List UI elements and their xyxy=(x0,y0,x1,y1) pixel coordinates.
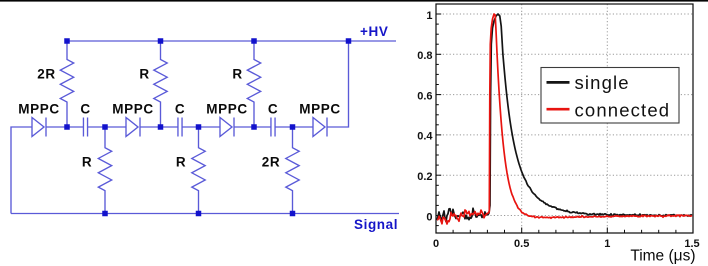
wire: +HV top bus xyxy=(67,40,396,42)
svg-text:Signal: Signal xyxy=(354,217,398,232)
svg-text:R: R xyxy=(82,155,92,170)
wire: right drop from +HV bus to MPPC4 cathode xyxy=(327,41,349,127)
node J3 xyxy=(158,124,164,130)
svg-text:0.8: 0.8 xyxy=(417,50,432,62)
svg-text:0.4: 0.4 xyxy=(417,131,433,143)
svg-text:1: 1 xyxy=(426,10,432,22)
svg-text:MPPC: MPPC xyxy=(112,102,153,117)
svg-text:MPPC: MPPC xyxy=(18,102,59,117)
svg-text:2R: 2R xyxy=(37,67,55,82)
resistor R3 value R (top right) xyxy=(247,41,260,127)
capacitor C1 xyxy=(82,118,84,137)
node: top bus junction at right drop xyxy=(346,38,352,44)
chart gridlines xyxy=(436,13,693,15)
svg-text:0.2: 0.2 xyxy=(417,171,432,183)
resistor R4 value R (bottom left) xyxy=(98,127,111,214)
diode MPPC3 xyxy=(220,118,232,137)
wire: C1 to node J2 xyxy=(88,126,105,128)
svg-text:R: R xyxy=(139,67,149,82)
resistor R6 value 2R (bottom right) xyxy=(286,127,299,214)
chart x-axis ticks xyxy=(435,228,437,234)
diode MPPC4 xyxy=(313,118,325,137)
node: top bus junction above R2 xyxy=(158,38,164,44)
node J6 xyxy=(290,124,296,130)
chart y-axis ticks xyxy=(436,215,441,217)
svg-text:0.5: 0.5 xyxy=(514,238,529,250)
svg-text:C: C xyxy=(175,102,185,117)
top border rule xyxy=(0,0,708,2)
wire: node J5 to C3 xyxy=(254,126,271,128)
wire: C3 to node J6 xyxy=(275,126,292,128)
wire: C2 to node J4 xyxy=(182,126,198,128)
legend sample line: single xyxy=(547,81,570,84)
wire: MPPC2 cathode to node J3 xyxy=(140,126,161,128)
svg-text:+HV: +HV xyxy=(360,24,388,39)
wire: node J2 to MPPC2 anode xyxy=(105,126,126,128)
wire: node J4 to MPPC3 anode xyxy=(199,126,221,128)
legend box xyxy=(541,68,679,124)
node J4 xyxy=(196,124,202,130)
node J1 xyxy=(64,124,70,130)
node: top bus junction above R1 xyxy=(64,38,70,44)
wire: node J6 to MPPC4 anode xyxy=(293,126,314,128)
svg-text:0: 0 xyxy=(433,238,439,250)
svg-text:C: C xyxy=(80,102,90,117)
node J2 xyxy=(102,124,108,130)
node: top bus junction above R3 xyxy=(251,38,257,44)
node: bottom bus junction under R4 xyxy=(102,211,108,217)
svg-text:0.6: 0.6 xyxy=(417,90,432,102)
node: bottom bus junction under R5 xyxy=(196,211,202,217)
wire: left rail from MPPC1 anode down to signal bus xyxy=(11,127,32,214)
node J5 xyxy=(251,124,257,130)
svg-text:R: R xyxy=(176,155,186,170)
svg-text:R: R xyxy=(232,67,242,82)
curve: connected (red) xyxy=(437,14,692,224)
svg-text:connected: connected xyxy=(575,100,671,121)
diode MPPC2 xyxy=(126,118,138,137)
capacitor C3 xyxy=(270,118,272,137)
node: bottom bus junction under R6 xyxy=(290,211,296,217)
resistor R1 value 2R (top left) xyxy=(60,41,73,127)
svg-text:C: C xyxy=(268,102,278,117)
wire: node J3 to C2 xyxy=(161,126,178,128)
wire: node J1 to C1 xyxy=(67,126,83,128)
capacitor C2 xyxy=(177,118,179,137)
resistor R5 value R (bottom middle) xyxy=(192,127,205,214)
svg-text:MPPC: MPPC xyxy=(206,102,247,117)
legend sample line: connected xyxy=(547,108,570,111)
svg-text:1: 1 xyxy=(604,238,610,250)
svg-text:single: single xyxy=(575,72,630,93)
diode MPPC1 xyxy=(32,118,44,137)
svg-text:MPPC: MPPC xyxy=(299,102,340,117)
chart frame xyxy=(436,4,693,233)
wire: Signal bottom bus xyxy=(11,213,399,215)
svg-text:Time (μs): Time (μs) xyxy=(630,248,695,265)
svg-text:2R: 2R xyxy=(262,155,280,170)
wire: MPPC1 cathode to node J1 xyxy=(46,126,67,128)
curve: single (black) xyxy=(437,14,692,222)
wire: MPPC3 cathode to node J5 xyxy=(234,126,254,128)
resistor R2 value R (top middle) xyxy=(154,41,167,127)
svg-text:0: 0 xyxy=(426,211,432,223)
